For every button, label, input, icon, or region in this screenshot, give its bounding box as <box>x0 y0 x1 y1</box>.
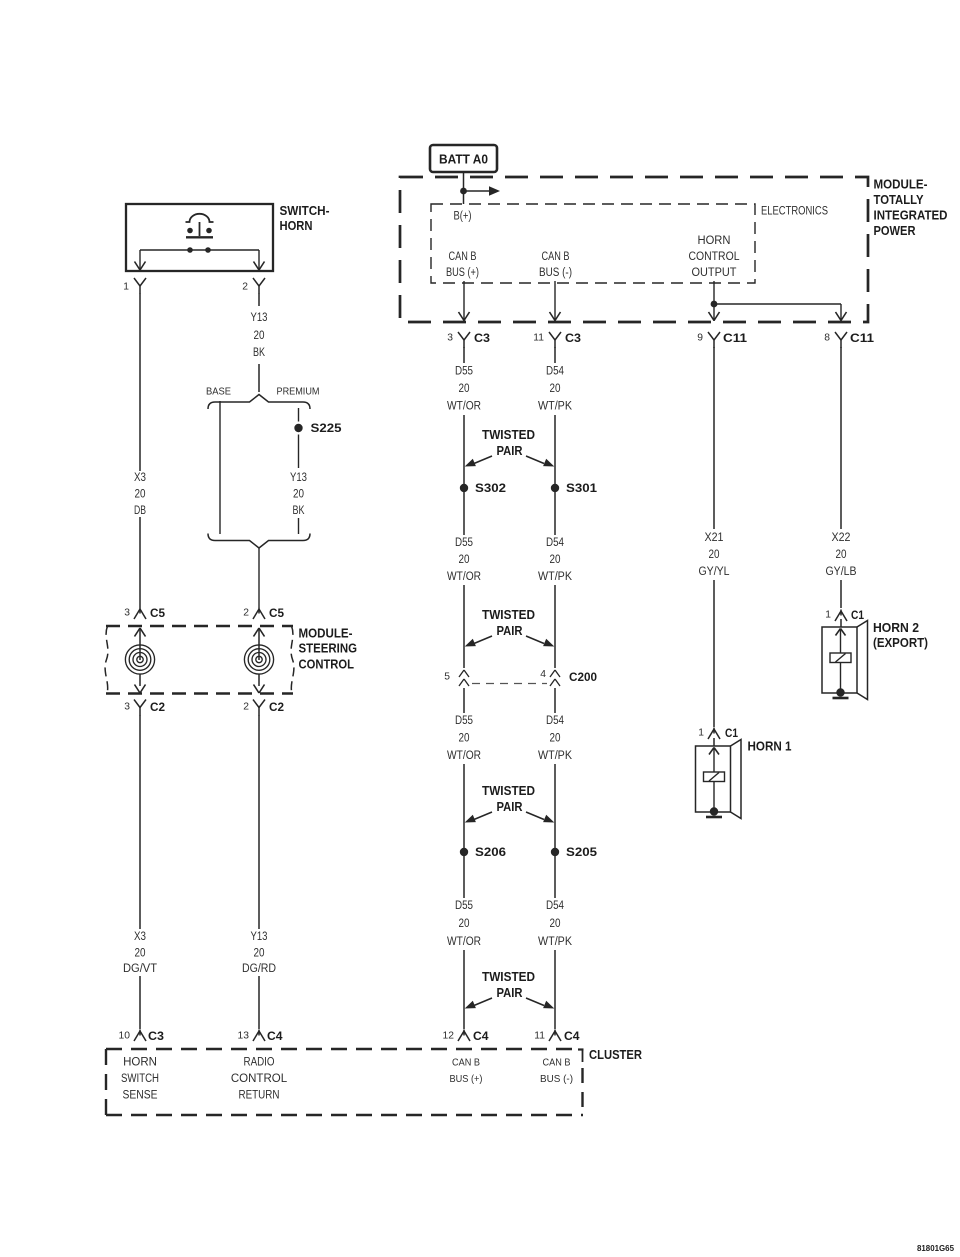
svg-text:20: 20 <box>135 948 146 960</box>
svg-text:4: 4 <box>540 669 546 680</box>
svg-text:TWISTED: TWISTED <box>482 428 535 442</box>
svg-text:20: 20 <box>836 549 847 561</box>
svg-text:20: 20 <box>293 489 304 501</box>
label electronics <box>761 206 828 218</box>
wire base branch <box>219 401 221 534</box>
label module-steering control <box>299 626 358 672</box>
svg-text:OUTPUT: OUTPUT <box>692 267 737 279</box>
electronics box <box>431 204 755 283</box>
pin label CAN B BUS (+) <box>446 251 479 279</box>
svg-text:TWISTED: TWISTED <box>482 784 535 798</box>
svg-text:BK: BK <box>253 347 265 359</box>
svg-text:WT/PK: WT/PK <box>538 936 572 948</box>
label switch-horn <box>280 203 330 233</box>
svg-text:HORN: HORN <box>280 218 313 233</box>
wire X3 20 DG/VT upper <box>139 715 141 929</box>
svg-text:1: 1 <box>698 728 704 739</box>
svg-text:C200: C200 <box>569 670 597 684</box>
wire label D54 20 WT/PK 4 <box>538 900 572 948</box>
svg-text:X3: X3 <box>134 472 146 484</box>
svg-text:WT/PK: WT/PK <box>538 401 572 413</box>
svg-text:12: 12 <box>443 1031 455 1042</box>
svg-text:CONTROL: CONTROL <box>231 1073 288 1085</box>
clockspring coil right <box>244 628 273 693</box>
svg-text:C2: C2 <box>269 700 284 714</box>
svg-text:RADIO: RADIO <box>244 1057 275 1069</box>
svg-text:S206: S206 <box>475 845 506 859</box>
wire D54 seg3 <box>554 688 556 848</box>
twisted pair callout 1 <box>465 428 555 467</box>
junction horn control output <box>711 301 718 308</box>
drawing number <box>917 1244 955 1253</box>
module-steering control box right edge <box>291 626 294 694</box>
svg-text:PAIR: PAIR <box>497 444 523 458</box>
pin label HORN CONTROL OUTPUT <box>689 235 741 279</box>
svg-text:20: 20 <box>254 330 265 342</box>
pin label B(+) <box>454 211 472 223</box>
svg-text:DB: DB <box>134 505 146 517</box>
twisted pair callout 2 <box>465 608 555 647</box>
svg-text:D54: D54 <box>546 537 565 549</box>
pin label radio control return <box>231 1057 288 1102</box>
svg-text:BUS (-): BUS (-) <box>540 1074 573 1085</box>
battery feed BATT A0 box <box>430 145 497 172</box>
svg-text:BK: BK <box>293 505 305 517</box>
label horn 2 (export) <box>873 620 928 650</box>
pin label CAN B BUS (-) <box>539 251 572 279</box>
wire X22 upper <box>840 347 842 529</box>
horn 1 <box>696 740 742 819</box>
svg-text:Y13: Y13 <box>251 312 268 324</box>
switch pin 2 <box>242 278 265 294</box>
svg-text:WT/OR: WT/OR <box>447 750 481 762</box>
svg-text:HORN: HORN <box>123 1057 157 1069</box>
wire to C11 pin 9 <box>709 304 720 321</box>
wire D55 seg3 <box>463 688 465 848</box>
wire label D54 20 WT/PK 1 <box>538 366 572 413</box>
wire switch pin 2 drop <box>254 250 265 270</box>
connector C4 pin 11 cluster <box>534 1029 580 1043</box>
svg-text:WT/OR: WT/OR <box>447 401 481 413</box>
svg-text:D55: D55 <box>455 715 473 727</box>
wire D55 seg2 <box>463 492 465 668</box>
wire CAN B bus + to C3 <box>459 281 470 321</box>
ground horn 1 <box>706 816 722 819</box>
wire Y13 20 DG/RD lower <box>258 976 260 1029</box>
svg-text:CAN B: CAN B <box>542 251 570 263</box>
svg-text:8: 8 <box>824 333 830 344</box>
junction battery feed <box>460 188 467 195</box>
svg-text:BASE: BASE <box>206 387 231 398</box>
connector C2 pin 3 <box>124 700 165 716</box>
svg-text:2: 2 <box>243 702 249 713</box>
connector C200 pin 5 <box>444 670 469 686</box>
merge brace bottom <box>208 534 310 549</box>
pin label can b bus - cluster <box>540 1058 573 1086</box>
svg-text:PAIR: PAIR <box>497 986 523 1000</box>
svg-text:GY/LB: GY/LB <box>826 566 857 578</box>
wire Y13 20 DG/RD upper <box>258 715 260 929</box>
svg-text:Y13: Y13 <box>290 472 307 484</box>
svg-text:X3: X3 <box>134 931 146 943</box>
wire label X3 20 DB <box>134 472 146 517</box>
label module-totally integrated power <box>874 177 948 239</box>
svg-text:S302: S302 <box>475 481 506 495</box>
svg-text:2: 2 <box>243 608 249 619</box>
wire label D55 20 WT/OR 1 <box>447 366 481 413</box>
svg-text:D55: D55 <box>455 900 473 912</box>
svg-text:B(+): B(+) <box>454 211 472 223</box>
wire battery feed <box>463 172 465 204</box>
wire X3 20 DG/VT lower <box>139 976 141 1029</box>
svg-text:ELECTRONICS: ELECTRONICS <box>761 206 828 218</box>
connector C11 pin 8 <box>824 331 874 348</box>
wire label D54 20 WT/PK 2 <box>538 537 572 583</box>
svg-text:MODULE-: MODULE- <box>299 626 353 641</box>
wire to C11 pin 8 <box>836 304 847 321</box>
svg-text:Y13: Y13 <box>251 931 268 943</box>
svg-text:HORN 2: HORN 2 <box>873 620 919 635</box>
svg-text:3: 3 <box>124 702 130 713</box>
wire premium branch lower <box>298 518 300 534</box>
svg-text:CAN B: CAN B <box>452 1058 480 1069</box>
connector C200 pin 4 <box>540 669 597 686</box>
switch pin 1 <box>123 278 146 294</box>
wire X3 20 DB upper <box>139 294 141 472</box>
module-steering control box left edge <box>105 626 108 694</box>
wire label D55 20 WT/OR 3 <box>447 715 481 762</box>
wire D55 seg1 <box>463 347 465 484</box>
svg-text:D54: D54 <box>546 900 565 912</box>
connector C3 pin 3 <box>447 331 490 348</box>
svg-text:11: 11 <box>534 1031 545 1042</box>
wire X22 lower <box>840 580 842 627</box>
svg-text:SWITCH-: SWITCH- <box>280 203 330 218</box>
svg-text:CLUSTER: CLUSTER <box>589 1047 642 1062</box>
svg-text:20: 20 <box>254 948 265 960</box>
svg-text:C3: C3 <box>565 331 581 345</box>
split brace top <box>208 395 310 410</box>
connector C200 link <box>472 683 547 685</box>
svg-text:20: 20 <box>135 489 146 501</box>
svg-text:TWISTED: TWISTED <box>482 970 535 984</box>
svg-text:PAIR: PAIR <box>497 800 523 814</box>
svg-text:9: 9 <box>697 333 703 344</box>
svg-text:SENSE: SENSE <box>123 1090 158 1102</box>
connector C2 pin 2 <box>243 700 284 716</box>
wire premium branch <box>298 435 300 469</box>
cluster box top <box>106 1048 577 1050</box>
module-totally integrated power box (TIPM) <box>400 177 868 322</box>
cluster box bottom <box>106 1114 583 1116</box>
svg-text:INTEGRATED: INTEGRATED <box>874 208 948 223</box>
wire horn control output <box>713 281 715 304</box>
wire Y13 20 BK upper <box>258 294 260 307</box>
label PREMIUM <box>277 387 320 398</box>
splice S225 <box>294 421 342 435</box>
svg-text:C5: C5 <box>269 606 284 620</box>
svg-text:13: 13 <box>238 1031 250 1042</box>
svg-text:20: 20 <box>459 554 470 566</box>
wire Y13 to split <box>258 364 260 392</box>
svg-text:X22: X22 <box>832 532 851 544</box>
svg-text:20: 20 <box>459 733 470 745</box>
svg-text:PAIR: PAIR <box>497 624 523 638</box>
svg-text:POWER: POWER <box>874 223 916 238</box>
wire D54 seg1 <box>554 347 556 484</box>
svg-text:81801G65: 81801G65 <box>917 1244 955 1253</box>
svg-text:C4: C4 <box>473 1029 489 1043</box>
wire label Y13 20 BK premium <box>290 472 307 517</box>
wire label Y13 20 BK <box>251 312 268 359</box>
svg-text:S225: S225 <box>311 421 342 435</box>
splice S302 <box>460 481 507 495</box>
svg-text:CONTROL: CONTROL <box>689 251 741 263</box>
pin label can b bus + cluster <box>450 1058 483 1086</box>
svg-text:BUS (+): BUS (+) <box>446 267 479 279</box>
svg-text:WT/OR: WT/OR <box>447 936 481 948</box>
svg-text:S301: S301 <box>566 481 597 495</box>
horn switch button <box>186 214 214 238</box>
wire premium branch upper <box>298 408 300 422</box>
switch contact wire <box>140 249 259 251</box>
svg-text:HORN 1: HORN 1 <box>748 739 792 754</box>
svg-text:WT/PK: WT/PK <box>538 750 572 762</box>
svg-text:BUS (-): BUS (-) <box>539 267 572 279</box>
splice S206 <box>460 845 507 859</box>
svg-text:20: 20 <box>550 918 561 930</box>
svg-text:20: 20 <box>459 918 470 930</box>
wire to C5 pin 2 <box>258 548 260 608</box>
connector C5 pin 3 <box>124 606 165 620</box>
wire label D55 20 WT/OR 2 <box>447 537 481 583</box>
svg-text:C4: C4 <box>564 1029 580 1043</box>
svg-text:STEERING: STEERING <box>299 641 358 656</box>
svg-text:20: 20 <box>709 549 720 561</box>
wire label X3 20 DG/VT <box>123 931 157 975</box>
label cluster <box>589 1047 642 1062</box>
connector C11 pin 9 <box>697 331 747 348</box>
svg-text:10: 10 <box>119 1031 131 1042</box>
svg-text:2: 2 <box>242 282 248 293</box>
svg-text:HORN: HORN <box>698 235 731 247</box>
module-steering control box top <box>106 625 293 628</box>
svg-text:5: 5 <box>444 672 450 683</box>
svg-text:GY/YL: GY/YL <box>699 566 731 578</box>
svg-text:CONTROL: CONTROL <box>299 657 355 672</box>
cluster box left <box>105 1049 107 1115</box>
splice S205 <box>551 845 598 859</box>
horn 2 <box>822 621 868 700</box>
module-steering control box bottom <box>106 692 293 695</box>
wire horn output branch <box>714 303 841 305</box>
wire label X21 20 GY/YL <box>699 532 731 578</box>
svg-text:C2: C2 <box>150 700 165 714</box>
svg-text:RETURN: RETURN <box>239 1090 280 1102</box>
svg-text:1: 1 <box>825 610 831 621</box>
wire switch pin 1 drop <box>135 250 146 270</box>
svg-text:20: 20 <box>459 383 470 395</box>
svg-text:1: 1 <box>123 282 129 293</box>
connector C5 pin 2 <box>243 606 284 620</box>
connector C4 pin 13 cluster <box>238 1029 283 1043</box>
cluster box right <box>578 1049 584 1115</box>
svg-text:TOTALLY: TOTALLY <box>874 192 924 207</box>
svg-text:D55: D55 <box>455 537 473 549</box>
splice S301 <box>551 481 598 495</box>
connector C3 pin 11 <box>533 331 581 348</box>
svg-text:CAN B: CAN B <box>543 1058 571 1069</box>
ground horn 2 <box>833 697 849 700</box>
wire label D55 20 WT/OR 4 <box>447 900 481 948</box>
connector C1 horn 2 pin 1 <box>825 608 864 622</box>
svg-text:D55: D55 <box>455 366 473 378</box>
label horn 1 <box>748 739 792 754</box>
svg-text:D54: D54 <box>546 715 565 727</box>
svg-text:(EXPORT): (EXPORT) <box>873 635 928 650</box>
svg-text:20: 20 <box>550 554 561 566</box>
svg-text:C5: C5 <box>150 606 165 620</box>
svg-text:DG/RD: DG/RD <box>242 963 276 975</box>
svg-text:BATT A0: BATT A0 <box>439 152 488 167</box>
svg-text:SWITCH: SWITCH <box>121 1073 159 1085</box>
svg-text:DG/VT: DG/VT <box>123 963 157 975</box>
wire X21 lower <box>713 580 715 746</box>
battery feed arrow <box>464 186 501 196</box>
svg-text:D54: D54 <box>546 366 565 378</box>
switch contact dots <box>187 247 211 253</box>
wire label D54 20 WT/PK 3 <box>538 715 572 762</box>
svg-text:C1: C1 <box>725 726 738 740</box>
wire D54 seg2 <box>554 492 556 668</box>
svg-text:X21: X21 <box>705 532 724 544</box>
wire CAN B bus - to C3 <box>550 281 561 321</box>
label BASE <box>206 387 231 398</box>
svg-text:MODULE-: MODULE- <box>874 177 928 192</box>
wire D54 seg4 <box>554 856 556 1029</box>
wire X21 upper <box>713 347 715 529</box>
wire label X22 20 GY/LB <box>826 532 857 578</box>
svg-text:WT/PK: WT/PK <box>538 571 572 583</box>
svg-text:WT/OR: WT/OR <box>447 571 481 583</box>
switch-horn box <box>126 204 273 271</box>
svg-text:C11: C11 <box>850 331 874 345</box>
clockspring coil left <box>125 628 154 693</box>
svg-text:C3: C3 <box>474 331 490 345</box>
svg-text:20: 20 <box>550 383 561 395</box>
svg-text:C1: C1 <box>851 608 864 622</box>
wire X3 20 DB lower <box>139 517 141 608</box>
connector C4 pin 12 cluster <box>443 1029 489 1043</box>
svg-text:3: 3 <box>447 333 453 344</box>
svg-text:PREMIUM: PREMIUM <box>277 387 320 398</box>
wire label Y13 20 DG/RD <box>242 931 276 975</box>
svg-text:TWISTED: TWISTED <box>482 608 535 622</box>
connector C3 pin 10 cluster <box>119 1029 165 1043</box>
svg-text:C4: C4 <box>267 1029 283 1043</box>
svg-text:20: 20 <box>550 733 561 745</box>
wire D55 seg4 <box>463 856 465 1029</box>
svg-text:3: 3 <box>124 608 130 619</box>
connector C1 horn 1 pin 1 <box>698 726 738 740</box>
svg-text:C11: C11 <box>723 331 747 345</box>
pin label horn switch sense <box>121 1057 159 1102</box>
svg-text:BUS (+): BUS (+) <box>450 1074 483 1085</box>
svg-text:C3: C3 <box>148 1029 164 1043</box>
svg-text:CAN B: CAN B <box>449 251 477 263</box>
twisted pair callout 4 <box>465 970 555 1009</box>
svg-text:S205: S205 <box>566 845 597 859</box>
svg-text:11: 11 <box>533 333 544 344</box>
twisted pair callout 3 <box>465 784 555 823</box>
